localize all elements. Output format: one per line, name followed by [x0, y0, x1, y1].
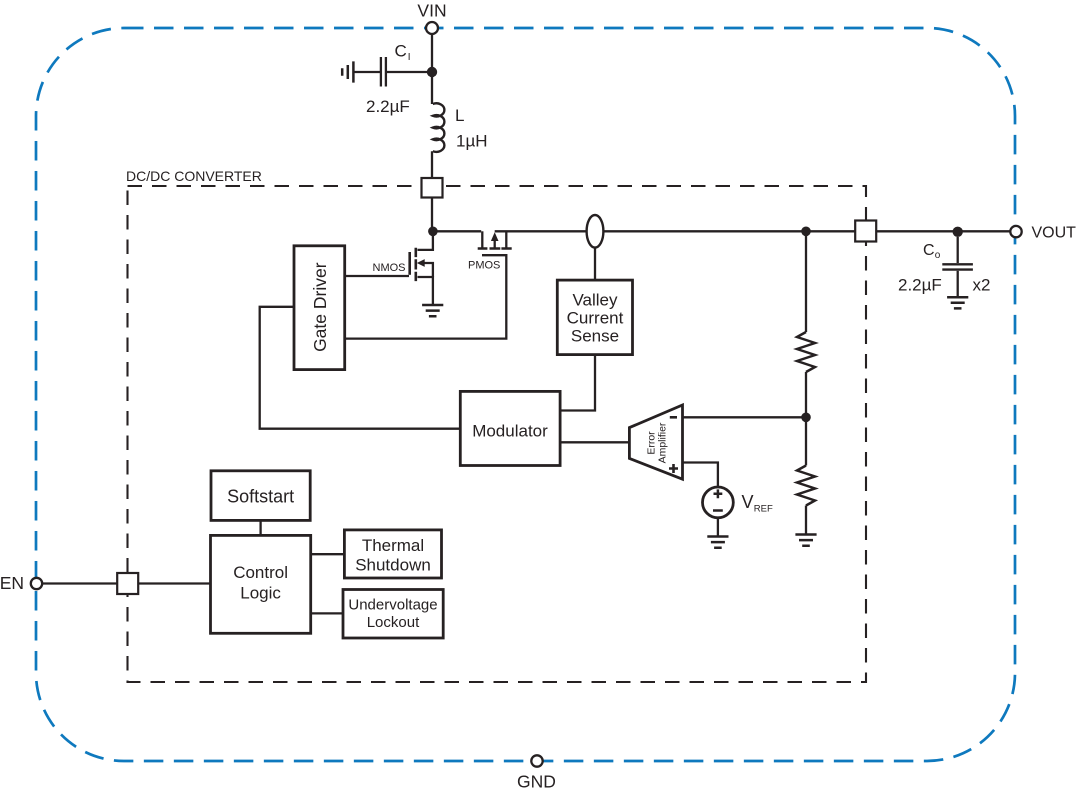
svg-text:V: V [742, 492, 754, 512]
svg-text:Lockout: Lockout [367, 614, 420, 631]
svg-text:Valley: Valley [572, 290, 618, 309]
svg-text:C: C [923, 242, 935, 259]
svg-text:PMOS: PMOS [468, 260, 500, 272]
svg-text:Control: Control [233, 563, 288, 582]
svg-text:C: C [395, 42, 407, 61]
svg-text:2.2µF: 2.2µF [366, 97, 410, 116]
svg-text:Undervoltage: Undervoltage [348, 596, 437, 613]
svg-text:Softstart: Softstart [227, 486, 294, 506]
svg-text:Sense: Sense [571, 326, 619, 345]
svg-text:REF: REF [754, 504, 773, 515]
svg-text:VOUT: VOUT [1032, 225, 1077, 242]
svg-text:o: o [935, 250, 941, 261]
svg-text:VIN: VIN [417, 0, 446, 20]
svg-text:2.2µF: 2.2µF [898, 276, 942, 295]
svg-text:DC/DC CONVERTER: DC/DC CONVERTER [126, 168, 262, 184]
svg-text:1µH: 1µH [456, 132, 488, 151]
svg-text:Shutdown: Shutdown [355, 556, 431, 575]
svg-text:NMOS: NMOS [373, 262, 406, 274]
svg-text:Current: Current [567, 308, 624, 327]
svg-text:Modulator: Modulator [472, 422, 548, 441]
svg-text:Thermal: Thermal [362, 536, 424, 555]
svg-text:EN: EN [0, 573, 24, 593]
svg-text:Amplifier: Amplifier [657, 422, 669, 463]
svg-text:L: L [455, 106, 464, 125]
svg-text:Logic: Logic [240, 583, 281, 602]
svg-text:x2: x2 [973, 276, 991, 295]
svg-text:Gate Driver: Gate Driver [310, 262, 330, 352]
svg-text:I: I [408, 52, 411, 63]
svg-text:GND: GND [517, 772, 556, 791]
